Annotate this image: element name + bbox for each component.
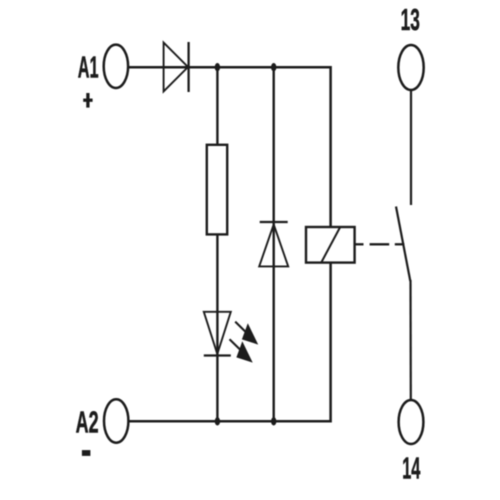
node dot top branch2 — [271, 63, 276, 71]
svg-text:A2: A2 — [76, 405, 99, 440]
dashed actuator link — [355, 243, 405, 245]
label + (plus) — [83, 93, 92, 108]
label - (minus) — [82, 450, 91, 456]
node dot top branch1 — [215, 63, 220, 71]
svg-text:13: 13 — [401, 2, 420, 37]
wire bottom horizontal A2 to corner, up to coil bottom — [129, 262, 331, 421]
node dot bottom branch1 — [215, 417, 220, 425]
terminal 14 — [399, 400, 424, 444]
switch blade (NO contact) — [396, 207, 410, 282]
svg-text:14: 14 — [402, 451, 421, 486]
relay coil K1 — [306, 227, 355, 263]
wire branch 1 lower (resistor through LED to bottom) — [216, 233, 218, 421]
resistor R1 — [207, 145, 227, 235]
LED D2 (pointing down) — [204, 312, 231, 356]
LED arrow 1 — [235, 322, 258, 345]
wire top horizontal A1 to relay corner, down to coil — [128, 67, 331, 228]
freewheeling diode D3 (cathode up) — [259, 222, 288, 266]
diode D1 (series, anode left) — [164, 42, 189, 92]
wire branch 2 (freewheeling diode branch) — [273, 67, 275, 421]
node dot bottom branch2 — [271, 417, 276, 425]
terminal A1 — [104, 45, 128, 88]
LED arrow 2 — [230, 339, 253, 362]
wire switch lower — [409, 280, 411, 401]
terminal A2 — [104, 399, 128, 442]
wire switch upper fixed — [410, 90, 412, 205]
terminal 13 — [398, 45, 423, 90]
svg-text:A1: A1 — [78, 50, 99, 85]
wire branch 1 upper (node to resistor) — [216, 67, 218, 146]
